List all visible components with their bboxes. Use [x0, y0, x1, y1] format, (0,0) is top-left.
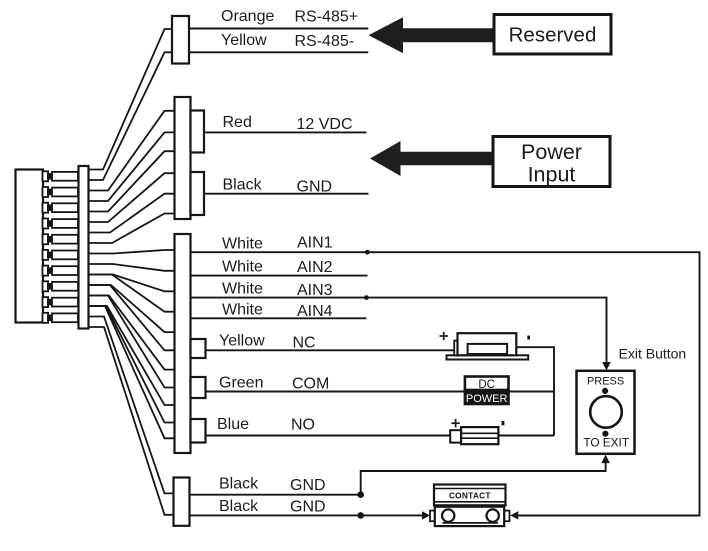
svg-text:AIN4: AIN4: [297, 303, 333, 320]
svg-text:RS-485-: RS-485-: [295, 33, 355, 50]
svg-text:12 VDC: 12 VDC: [297, 116, 353, 133]
svg-text:Black: Black: [219, 498, 259, 515]
svg-text:Orange: Orange: [221, 8, 274, 25]
svg-text:Green: Green: [219, 375, 263, 392]
svg-text:PRESS: PRESS: [587, 376, 624, 388]
svg-text:TO EXIT: TO EXIT: [583, 436, 629, 450]
svg-text:Red: Red: [223, 114, 252, 131]
svg-text:Yellow: Yellow: [221, 32, 267, 49]
svg-text:Exit Button: Exit Button: [619, 346, 687, 362]
svg-text:AIN1: AIN1: [297, 235, 333, 252]
svg-text:Black: Black: [223, 176, 263, 193]
svg-text:White: White: [222, 301, 263, 318]
svg-text:CONTACT: CONTACT: [449, 490, 491, 500]
svg-text:AIN3: AIN3: [297, 282, 333, 299]
svg-text:Input: Input: [528, 162, 576, 186]
svg-text:GND: GND: [290, 477, 326, 494]
svg-text:Yellow: Yellow: [219, 333, 265, 350]
svg-text:Blue: Blue: [217, 416, 249, 433]
svg-text:White: White: [222, 259, 263, 276]
svg-text:POWER: POWER: [466, 393, 508, 405]
svg-text:GND: GND: [297, 179, 333, 196]
svg-text:Power: Power: [521, 140, 582, 164]
svg-text:RS-485+: RS-485+: [295, 9, 359, 26]
svg-text:Black: Black: [219, 475, 259, 492]
svg-text:White: White: [222, 281, 263, 298]
svg-text:NC: NC: [293, 334, 316, 351]
svg-text:AIN2: AIN2: [297, 259, 333, 276]
svg-text:DC: DC: [478, 379, 495, 391]
svg-text:GND: GND: [290, 498, 326, 515]
svg-text:NO: NO: [291, 416, 315, 433]
svg-text:Reserved: Reserved: [509, 24, 597, 47]
svg-text:COM: COM: [292, 375, 329, 392]
svg-text:White: White: [222, 235, 263, 252]
